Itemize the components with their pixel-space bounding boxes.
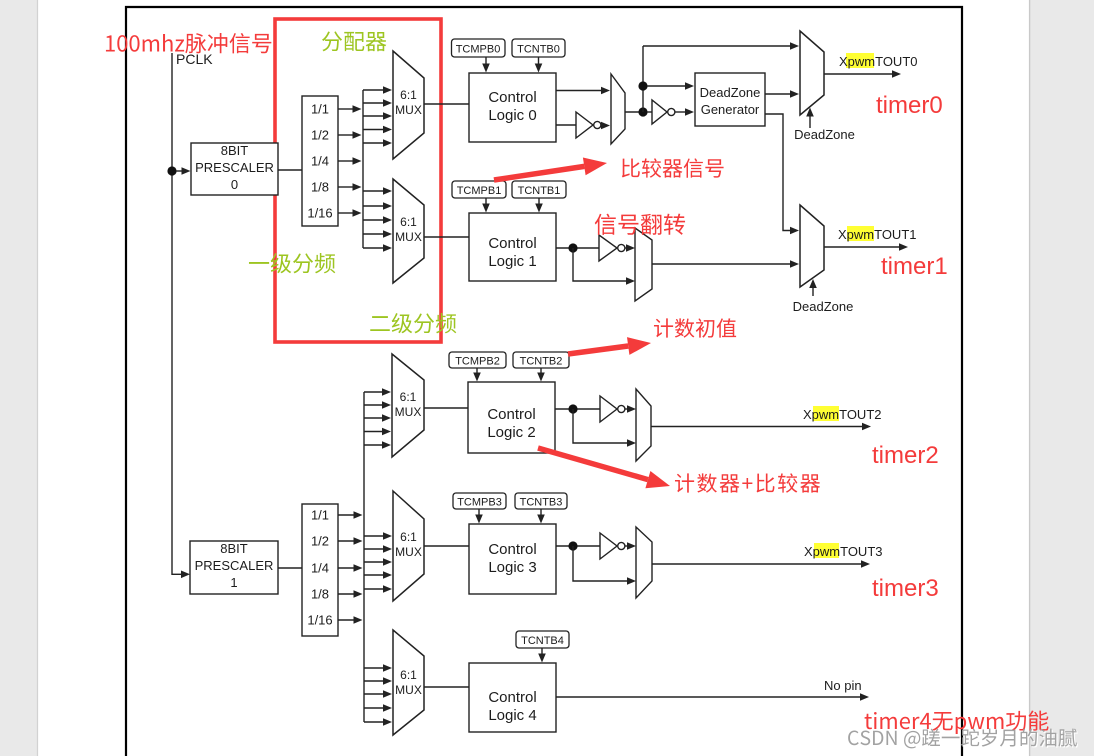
wire bus1 to MUX2 input 2 — [364, 414, 391, 422]
annotation text 比较器信号 — [622, 158, 724, 177]
svg-text:Control: Control — [487, 406, 535, 423]
block divider1 1/1-1/16 — [302, 504, 338, 636]
svg-text:TCNTB2: TCNTB2 — [520, 356, 563, 368]
svg-text:1/1: 1/1 — [311, 102, 329, 117]
svg-text:8BIT: 8BIT — [220, 541, 248, 556]
svg-text:MUX: MUX — [395, 103, 422, 117]
label timer1 — [881, 253, 948, 280]
wire TCMPB3 down arrow — [475, 509, 483, 524]
block Control Logic 4 — [469, 663, 556, 732]
wire inverter0a to muxA0 — [601, 122, 610, 130]
svg-text:Logic 0: Logic 0 — [488, 107, 536, 124]
register TCMPB2 — [449, 352, 506, 368]
svg-text:MUX: MUX — [395, 683, 422, 697]
label XpwmTOUT0 — [839, 54, 918, 69]
svg-text:DeadZone: DeadZone — [700, 85, 761, 100]
wire bus0 to MUX0 input 3 — [363, 126, 392, 134]
wire TCMPB0 down arrow — [482, 57, 490, 73]
page border frame — [126, 7, 962, 756]
svg-text:6:1: 6:1 — [400, 530, 417, 544]
left gray margin — [0, 0, 38, 756]
node CL2 junction dot — [568, 404, 577, 413]
wire bus1 to MUX3 input 4 — [364, 585, 392, 593]
wire bus1 to MUX4 input 4 — [364, 718, 392, 726]
svg-text:Logic 4: Logic 4 — [488, 707, 536, 724]
wire top line to output mux0 — [643, 42, 799, 50]
wire XpwmTOUT3 output — [652, 560, 870, 568]
node junction dot lower — [638, 107, 647, 116]
register TCNTB2 — [513, 352, 569, 368]
svg-text:DeadZone: DeadZone — [793, 299, 854, 314]
wire TCNTB1 down arrow — [535, 198, 543, 213]
mux 6:1 MUX4 — [393, 630, 424, 735]
wire CL0 out A to muxA0 — [556, 87, 610, 95]
red annotation rectangle 分配器 group — [275, 19, 441, 342]
svg-text:1/8: 1/8 — [311, 587, 329, 602]
wire clock bus 1 — [363, 392, 365, 722]
wire inverter2 to muxB2 — [625, 405, 637, 413]
node CL3 junction dot — [568, 541, 577, 550]
mux 6:1 MUX1 — [393, 179, 424, 283]
wire bus1 to MUX3 input 3 — [364, 571, 392, 579]
wire divider1 row 3 to bus — [338, 590, 363, 598]
svg-text:Logic 1: Logic 1 — [488, 253, 536, 270]
mux output MUX timer1 — [800, 205, 824, 287]
mux 6:1 MUX0 — [393, 51, 424, 159]
wire bus1 to MUX2 input 3 — [364, 428, 391, 436]
wire prescaler0 to divider0 — [278, 169, 302, 171]
annotation text 二级分频 — [370, 313, 456, 333]
svg-text:Logic 3: Logic 3 — [488, 559, 536, 576]
svg-text:XpwmTOUT0: XpwmTOUT0 — [839, 54, 918, 69]
highlight pwm yellow 3 — [814, 543, 839, 558]
mux 6:1 MUX2 — [392, 354, 424, 457]
inverter INV1 — [599, 235, 625, 261]
wire divider1 row 1 to bus — [338, 537, 363, 545]
watermark CSDN — [848, 729, 1078, 750]
mux 6:1 MUX3 — [393, 491, 424, 601]
label DeadZone 0 — [794, 127, 855, 142]
wire bus1 to MUX3 input 1 — [364, 545, 392, 553]
inverter INV2 — [600, 396, 625, 422]
inverter INV0b — [652, 100, 675, 124]
wire XpwmTOUT1 output — [824, 243, 908, 251]
block divider0 1/1-1/16 — [302, 96, 338, 226]
register TCMPB3 — [453, 493, 506, 509]
label timer2 — [872, 442, 939, 469]
inverter INV0a — [576, 112, 601, 138]
wire bus0 to MUX0 input 2 — [363, 112, 392, 120]
node PCLK junction at prescaler0 — [167, 166, 176, 175]
wire bus0 to MUX1 input 4 — [363, 244, 392, 252]
right gray margin — [1029, 0, 1094, 756]
wire muxA0 output — [625, 111, 643, 113]
wire bus1 to MUX3 input 2 — [364, 558, 392, 566]
inverter INV3 — [600, 533, 625, 559]
svg-text:No pin: No pin — [824, 678, 862, 693]
svg-text:1/16: 1/16 — [307, 206, 332, 221]
register TCNTB3 — [515, 493, 567, 509]
register TCMPB0 — [452, 39, 506, 57]
register TCNTB4 — [516, 631, 569, 648]
svg-text:1/4: 1/4 — [311, 561, 329, 576]
wire clock bus 0 — [362, 90, 364, 248]
mux output MUX timer0 — [800, 31, 824, 115]
highlight pwm yellow 2 — [813, 406, 839, 421]
svg-text:TCNTB4: TCNTB4 — [521, 635, 564, 647]
svg-text:PRESCALER: PRESCALER — [195, 558, 274, 573]
wire bus1 to MUX4 input 3 — [364, 704, 392, 712]
label XpwmTOUT3 — [804, 544, 883, 559]
wire MUX4 output to Control Logic 4 — [424, 686, 469, 688]
svg-text:PCLK: PCLK — [176, 51, 213, 67]
wire No pin output — [556, 693, 869, 701]
svg-text:XpwmTOUT1: XpwmTOUT1 — [838, 227, 917, 242]
svg-text:TCNTB3: TCNTB3 — [520, 497, 563, 509]
wire junction vertical — [642, 46, 644, 112]
wire bus1 to MUX4 input 2 — [364, 690, 392, 698]
highlight pwm yellow 0 — [846, 53, 874, 68]
wire divider0 row 4 to bus — [338, 209, 362, 217]
svg-text:PRESCALER: PRESCALER — [195, 160, 274, 175]
wire prescaler1 to divider1 — [278, 567, 302, 569]
wire XpwmTOUT0 output — [824, 70, 901, 78]
register TCNTB0 — [512, 39, 565, 57]
block 8BIT PRESCALER 0 — [191, 143, 278, 195]
wire lower dot to inverter INV0b — [647, 111, 652, 113]
wire CL3 output — [556, 545, 600, 547]
wire bus1 to MUX4 input 0 — [364, 664, 392, 672]
wire TCNTB4 down arrow — [538, 648, 546, 663]
svg-text:DeadZone: DeadZone — [794, 127, 855, 142]
node CL1 junction dot — [568, 243, 577, 252]
wire MUX3 output to Control Logic 3 — [424, 545, 469, 547]
mux muxB2 — [636, 389, 651, 461]
block Control Logic 2 — [468, 382, 555, 453]
annotation text 分配器 — [322, 31, 386, 51]
svg-text:Generator: Generator — [701, 102, 760, 117]
svg-text:XpwmTOUT2: XpwmTOUT2 — [803, 407, 882, 422]
svg-text:MUX: MUX — [395, 545, 422, 559]
svg-text:XpwmTOUT3: XpwmTOUT3 — [804, 544, 883, 559]
wire bus1 to MUX4 input 1 — [364, 677, 392, 685]
svg-text:6:1: 6:1 — [400, 215, 417, 229]
wire bus0 to MUX0 input 4 — [363, 139, 392, 147]
wire bus0 to MUX0 input 1 — [363, 99, 392, 107]
svg-text:1/1: 1/1 — [311, 508, 329, 523]
wire TCNTB3 down arrow — [537, 509, 545, 524]
svg-text:MUX: MUX — [395, 230, 422, 244]
svg-text:1/2: 1/2 — [311, 128, 329, 143]
wire bus1 to MUX3 input 0 — [364, 532, 392, 540]
svg-text:TCMPB2: TCMPB2 — [455, 356, 500, 368]
wire DZ out1 to output mux0 — [765, 90, 799, 98]
block DeadZone Generator — [695, 73, 765, 126]
svg-text:TCNTB0: TCNTB0 — [517, 44, 560, 56]
highlight pwm yellow 1 — [847, 226, 874, 241]
wire upper dot to DeadZone gen — [647, 82, 694, 90]
wire divider0 row 3 to bus — [338, 183, 362, 191]
svg-text:timer2: timer2 — [872, 442, 939, 469]
svg-text:6:1: 6:1 — [400, 88, 417, 102]
wire MUX0 output to Control Logic 0 — [424, 103, 469, 105]
wire DeadZone select arrow 0 — [806, 108, 814, 129]
block Control Logic 3 — [469, 524, 556, 594]
svg-text:0: 0 — [231, 177, 238, 192]
svg-text:TCMPB1: TCMPB1 — [457, 185, 502, 197]
right margin edge — [1029, 0, 1031, 756]
wire divider0 row 1 to bus — [338, 131, 362, 139]
svg-text:6:1: 6:1 — [400, 390, 417, 404]
wire inverter3 to muxB3 — [625, 542, 637, 550]
wire divider0 row 2 to bus — [338, 157, 362, 165]
svg-text:TCMPB0: TCMPB0 — [456, 44, 501, 56]
wire divider1 row 0 to bus — [338, 511, 363, 519]
annotation text 计数器+比较器 — [675, 473, 820, 492]
label timer4 red annotation — [865, 710, 1049, 734]
wire divider1 row 2 to bus — [338, 564, 363, 572]
wire bus1 to MUX2 input 4 — [364, 441, 391, 449]
svg-text:TCMPB3: TCMPB3 — [457, 497, 502, 509]
mux muxB1 — [635, 228, 652, 301]
annotation arrow to 计数器+比较器 — [538, 448, 670, 488]
svg-text:Logic 2: Logic 2 — [487, 424, 535, 441]
wire TCNTB0 down arrow — [535, 57, 543, 73]
wire XpwmTOUT2 output — [651, 423, 871, 431]
mux muxB3 — [636, 527, 652, 598]
svg-text:Control: Control — [488, 89, 536, 106]
annotation arrow to 计数初值 — [568, 337, 651, 355]
wire divider1 row 4 to bus — [338, 616, 363, 624]
svg-text:1/8: 1/8 — [311, 180, 329, 195]
wire muxB1 to output mux1 — [652, 260, 799, 268]
wire CL2 lower branch — [573, 409, 636, 447]
svg-text:timer0: timer0 — [876, 92, 943, 119]
svg-text:8BIT: 8BIT — [221, 143, 249, 158]
svg-text:1/4: 1/4 — [311, 154, 329, 169]
svg-text:TCNTB1: TCNTB1 — [518, 185, 561, 197]
wire TCMPB2 down arrow — [473, 368, 481, 382]
wire inverter1 to muxB1 — [625, 244, 636, 252]
wire PCLK to prescaler0 — [176, 167, 191, 175]
annotation arrow to 比较器信号 — [494, 158, 607, 181]
wire CL2 output — [555, 408, 600, 410]
block Control Logic 1 — [469, 213, 556, 281]
label DeadZone 1 — [793, 299, 854, 314]
svg-text:timer1: timer1 — [881, 253, 948, 280]
annotation text 计数初值 — [654, 318, 736, 337]
svg-text:1/16: 1/16 — [307, 613, 332, 628]
register TCNTB1 — [512, 181, 566, 198]
mux muxA0 (2:1 select) — [611, 74, 625, 144]
wire divider0 row 0 to bus — [338, 105, 362, 113]
wire bus1 to MUX2 input 1 — [364, 401, 391, 409]
wire CL3 lower branch — [573, 546, 636, 585]
svg-text:1: 1 — [230, 575, 237, 590]
wire MUX2 output to Control Logic 2 — [424, 407, 468, 409]
wire CL0 out B to inverter — [556, 124, 576, 126]
svg-text:MUX: MUX — [395, 405, 422, 419]
wire bus0 to MUX0 input 0 — [363, 86, 392, 94]
label XpwmTOUT2 — [803, 407, 882, 422]
svg-text:Control: Control — [488, 541, 536, 558]
annotation text 一级分频 — [249, 253, 335, 273]
svg-text:1/2: 1/2 — [311, 534, 329, 549]
wire CL1 lower branch — [573, 248, 635, 285]
wire bus0 to MUX1 input 2 — [363, 216, 392, 224]
annotation text 信号翻转 — [595, 214, 685, 235]
wire PCLK vertical trunk — [172, 53, 190, 578]
wire TCMPB1 down arrow — [482, 198, 490, 213]
label XpwmTOUT1 — [838, 227, 917, 242]
wire bus0 to MUX1 input 1 — [363, 202, 392, 210]
node junction dot upper — [638, 81, 647, 90]
wire DZ out2 down to output mux1 — [765, 114, 799, 234]
block 8BIT PRESCALER 1 — [190, 541, 278, 594]
annotation text 100mhz pulse — [106, 33, 271, 53]
label timer0 — [876, 92, 943, 119]
label PCLK — [176, 51, 213, 67]
register TCMPB1 — [452, 181, 506, 198]
wire CL1 output — [556, 247, 599, 249]
wire bus1 to MUX2 input 0 — [364, 388, 391, 396]
wire inverter0b to DeadZone gen — [675, 108, 695, 116]
wire MUX1 output to Control Logic 1 — [424, 236, 469, 238]
block Control Logic 0 — [469, 73, 556, 142]
wire bus0 to MUX1 input 0 — [363, 187, 392, 195]
wire TCNTB2 down arrow — [537, 368, 545, 382]
wire DeadZone select arrow 1 — [809, 279, 817, 296]
svg-text:Control: Control — [488, 689, 536, 706]
svg-text:timer3: timer3 — [872, 575, 939, 602]
wire bus0 to MUX1 input 3 — [363, 230, 392, 238]
svg-text:Control: Control — [488, 235, 536, 252]
label No pin — [824, 678, 862, 693]
left margin edge — [37, 0, 39, 756]
svg-text:6:1: 6:1 — [400, 668, 417, 682]
label timer3 — [872, 575, 939, 602]
